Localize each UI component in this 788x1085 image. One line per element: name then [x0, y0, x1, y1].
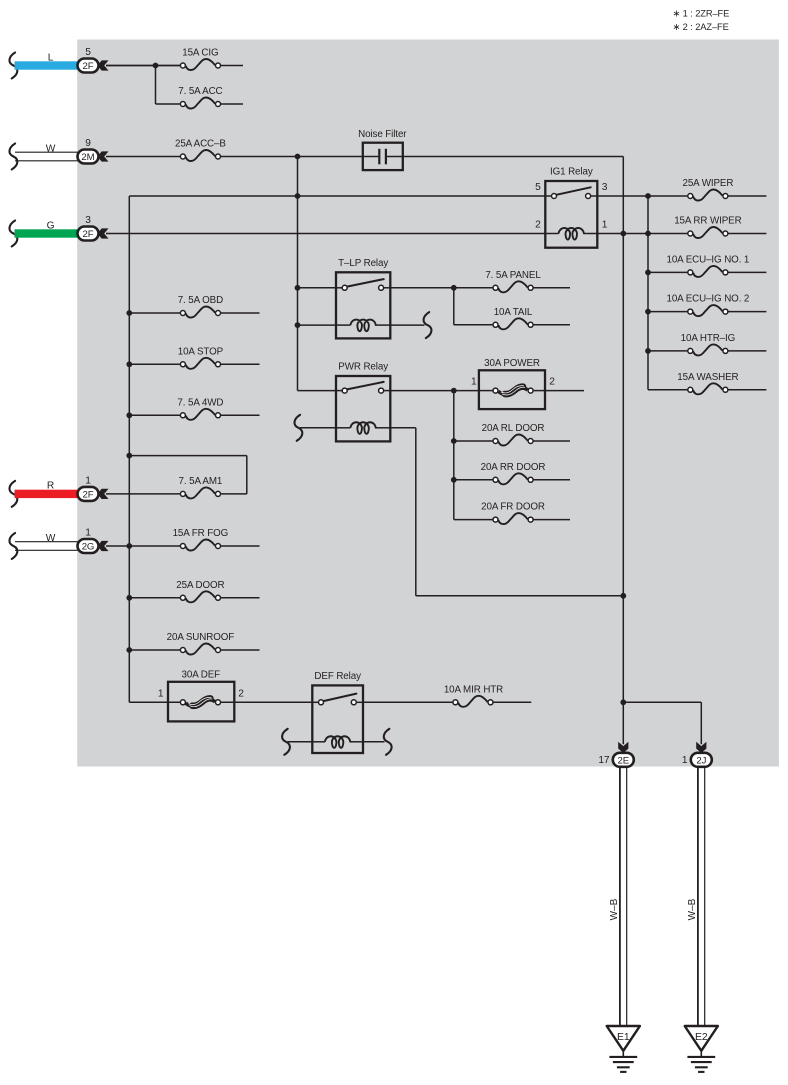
svg-text:2E: 2E: [618, 755, 630, 766]
svg-text:E2: E2: [695, 1032, 708, 1043]
svg-text:2: 2: [238, 688, 244, 699]
svg-text:T–LP Relay: T–LP Relay: [338, 258, 388, 269]
svg-text:20A SUNROOF: 20A SUNROOF: [167, 632, 235, 643]
svg-text:1: 1: [85, 528, 91, 539]
svg-text:PWR Relay: PWR Relay: [338, 362, 388, 373]
svg-text:10A MIR HTR: 10A MIR HTR: [444, 684, 503, 695]
svg-text:DEF Relay: DEF Relay: [314, 671, 361, 682]
svg-text:2F: 2F: [83, 61, 94, 72]
svg-text:25A DOOR: 25A DOOR: [176, 580, 224, 591]
svg-text:E1: E1: [617, 1032, 630, 1043]
svg-text:20A FR DOOR: 20A FR DOOR: [481, 502, 545, 513]
svg-text:Noise Filter: Noise Filter: [358, 129, 407, 140]
svg-text:W–B: W–B: [609, 898, 620, 920]
svg-text:W–B: W–B: [687, 898, 698, 920]
svg-text:20A RL DOOR: 20A RL DOOR: [482, 423, 545, 434]
svg-text:15A FR FOG: 15A FR FOG: [173, 528, 229, 539]
svg-text:10A ECU–IG NO. 1: 10A ECU–IG NO. 1: [666, 255, 749, 266]
svg-text:2: 2: [549, 376, 555, 387]
svg-text:2J: 2J: [696, 755, 706, 766]
svg-text:30A POWER: 30A POWER: [484, 358, 540, 369]
svg-text:20A RR DOOR: 20A RR DOOR: [481, 462, 546, 473]
svg-text:9: 9: [85, 138, 91, 149]
svg-text:10A STOP: 10A STOP: [178, 346, 224, 357]
svg-text:3: 3: [602, 182, 608, 193]
svg-text:∗ 2 : 2AZ–FE: ∗ 2 : 2AZ–FE: [673, 22, 729, 32]
svg-text:7. 5A 4WD: 7. 5A 4WD: [177, 397, 223, 408]
svg-text:1: 1: [85, 476, 91, 487]
svg-text:2G: 2G: [82, 542, 95, 553]
svg-text:7. 5A AM1: 7. 5A AM1: [179, 476, 223, 487]
svg-text:30A DEF: 30A DEF: [182, 670, 221, 681]
svg-text:G: G: [47, 220, 55, 231]
svg-text:17: 17: [598, 755, 610, 766]
svg-text:7. 5A PANEL: 7. 5A PANEL: [485, 270, 541, 281]
svg-text:R: R: [47, 481, 54, 492]
svg-text:2F: 2F: [83, 489, 94, 500]
svg-text:3: 3: [85, 215, 91, 226]
svg-text:∗ 1 : 2ZR–FE: ∗ 1 : 2ZR–FE: [673, 9, 730, 19]
svg-text:1: 1: [682, 755, 688, 766]
svg-text:L: L: [48, 52, 54, 63]
svg-text:10A TAIL: 10A TAIL: [494, 307, 533, 318]
svg-text:10A ECU–IG NO. 2: 10A ECU–IG NO. 2: [666, 294, 749, 305]
svg-text:W: W: [46, 143, 56, 154]
svg-text:5: 5: [85, 47, 91, 58]
svg-text:7. 5A OBD: 7. 5A OBD: [178, 295, 223, 306]
svg-text:25A WIPER: 25A WIPER: [682, 178, 733, 189]
svg-text:1: 1: [158, 688, 164, 699]
svg-text:15A RR WIPER: 15A RR WIPER: [674, 216, 741, 227]
svg-text:15A CIG: 15A CIG: [182, 48, 218, 59]
svg-text:10A HTR–IG: 10A HTR–IG: [681, 333, 736, 344]
svg-text:1: 1: [602, 219, 608, 230]
svg-text:25A ACC–B: 25A ACC–B: [175, 139, 226, 150]
svg-text:5: 5: [535, 182, 541, 193]
svg-text:IG1 Relay: IG1 Relay: [550, 167, 593, 178]
svg-text:W: W: [46, 533, 56, 544]
svg-text:2F: 2F: [83, 229, 94, 240]
svg-text:2M: 2M: [81, 152, 94, 163]
svg-text:2: 2: [535, 219, 541, 230]
svg-text:15A WASHER: 15A WASHER: [677, 372, 738, 383]
svg-text:7. 5A ACC: 7. 5A ACC: [178, 86, 222, 97]
svg-text:1: 1: [471, 376, 477, 387]
